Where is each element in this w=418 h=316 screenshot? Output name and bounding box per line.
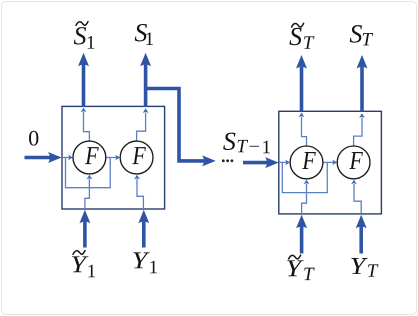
arrow Y1 input up: [138, 210, 149, 248]
wire FTa output up: [299, 113, 307, 147]
label S1: [135, 24, 153, 45]
wire FTa to FTb: [323, 160, 337, 166]
label S~1: [74, 22, 95, 49]
wire FTb output up: [354, 113, 365, 146]
arrow YT input up: [356, 215, 367, 254]
wire S1 branch to next cell: [146, 89, 216, 167]
label S_T-1: [223, 133, 270, 154]
node FTb: [337, 146, 370, 179]
wire bottom input into FTb: [351, 180, 361, 214]
wire F1a output up: [81, 108, 90, 142]
arrow Y~T input up: [296, 215, 307, 254]
label YT: [351, 258, 378, 277]
arrow S1 output up: [140, 53, 151, 107]
arrow S~1 output up: [78, 53, 89, 107]
label Y1: [133, 252, 157, 273]
box cell T: [279, 111, 382, 214]
label ST: [350, 25, 373, 45]
node F1b: [120, 141, 153, 174]
wire bottom input into F1a: [85, 175, 92, 209]
arrow S_T-1 into cell T: [243, 157, 279, 168]
wire F1b output up: [137, 108, 149, 141]
wire input into F1a: [62, 155, 73, 161]
wire bottom input into F1b: [134, 175, 143, 209]
label S~T: [289, 23, 314, 49]
wire input into FTa: [279, 160, 290, 166]
node F1a: [73, 141, 106, 174]
box cell 1: [62, 106, 165, 209]
arrow 0 input: [25, 152, 62, 163]
node FTa: [290, 146, 323, 179]
wire F1a to F1b: [106, 155, 120, 161]
arrow S~T output up: [296, 55, 307, 112]
wire feedback loop cell T: [282, 162, 327, 192]
wire feedback loop cell 1: [66, 158, 111, 188]
label 0: [29, 131, 38, 146]
label Y~T: [287, 255, 314, 280]
wire bottom input into FTa: [302, 180, 310, 214]
ellipsis dots: [222, 159, 233, 162]
label Y~1: [72, 251, 95, 278]
arrow Y~1 input up: [79, 210, 90, 248]
arrow ST output up: [357, 55, 368, 112]
